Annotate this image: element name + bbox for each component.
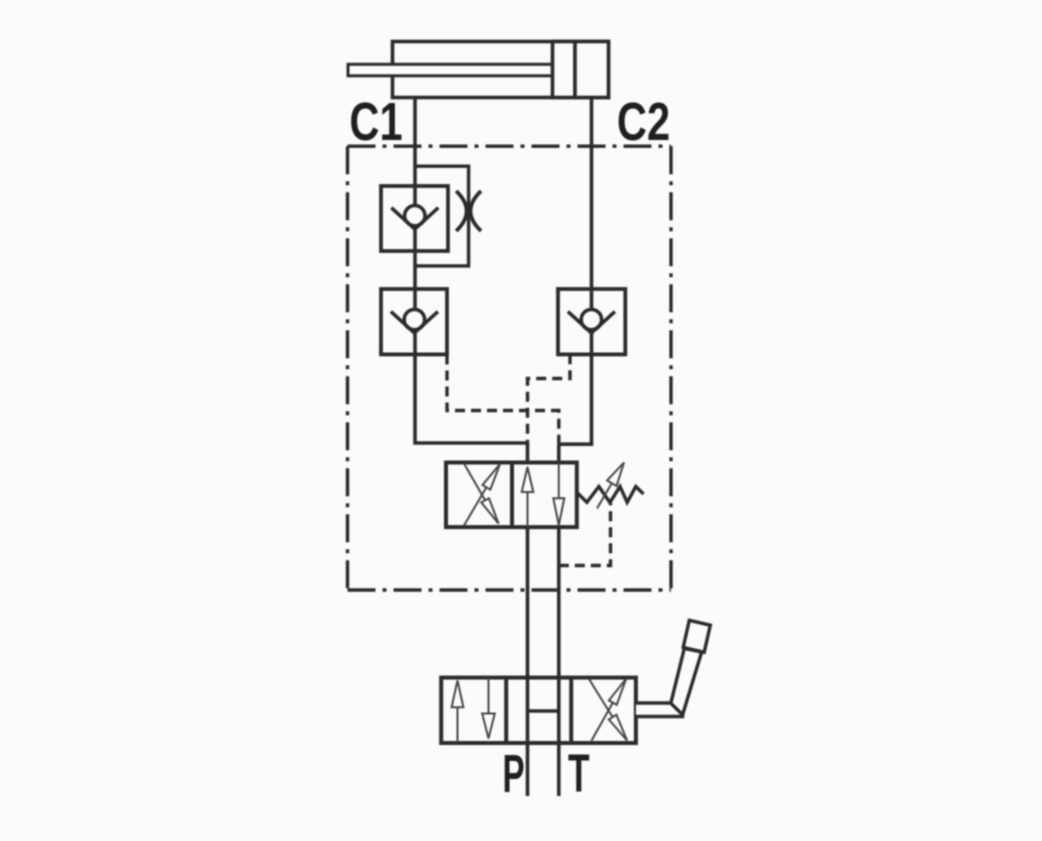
- throttle (restrictor) arcs: [456, 191, 481, 231]
- valve V2 left cell straight arrows: [452, 678, 495, 743]
- valve V1 right cell straight arrows: [522, 464, 565, 528]
- pilot line (dashed) from CV3 to left port: [528, 354, 571, 443]
- check valve CV1 square (with bypass throttle): [381, 186, 448, 251]
- valve V2 body (3-position lever valve): [441, 678, 636, 743]
- valve V2 right cell crossed arrows: [589, 679, 627, 741]
- enclosure dash-dot boundary box: [348, 146, 672, 590]
- check valve CV3 square (right, pilot operated): [558, 289, 625, 354]
- wire C2 trunk line (cylinder to valve right port corner): [559, 98, 592, 445]
- check valve CV1 ball and seat: [391, 206, 438, 230]
- valve V2 lever arm: [671, 649, 702, 715]
- cylinder piston rod: [348, 64, 553, 76]
- valve V1 left cell crossed arrows: [464, 463, 500, 526]
- cylinder right end cap: [575, 42, 609, 98]
- wire P port vertical (upper valve to lower valve and stub): [526, 443, 530, 796]
- pilot line (dashed) to V1 spring chamber: [559, 503, 611, 566]
- pilot line (dashed) from CV2 to right port: [447, 355, 559, 445]
- valve V1 body (2-position pilot valve): [446, 463, 577, 528]
- check valve CV2 ball and seat: [391, 309, 438, 333]
- check valve CV2 square (left, pilot operated): [381, 289, 447, 354]
- valve V2 lever bar: [636, 703, 683, 717]
- wire C1 trunk line (cylinder to valve left port corner): [415, 98, 528, 444]
- valve V1 spring (adjustable): [576, 487, 644, 503]
- cylinder barrel: [393, 42, 609, 98]
- cylinder piston: [553, 42, 576, 98]
- svg-text:P: P: [503, 745, 525, 804]
- valve V1 spring adjustment arrow: [597, 463, 624, 509]
- wire T port vertical (upper valve to lower valve and stub): [557, 444, 561, 796]
- valve V2 center cell P-T bridge: [528, 709, 559, 713]
- check valve CV3 ball and seat: [568, 309, 615, 333]
- valve V2 lever knob: [683, 620, 710, 652]
- flow control bypass loop: [415, 166, 469, 266]
- svg-text:C2: C2: [617, 92, 670, 153]
- svg-text:C1: C1: [349, 92, 402, 153]
- svg-text:T: T: [568, 743, 590, 803]
